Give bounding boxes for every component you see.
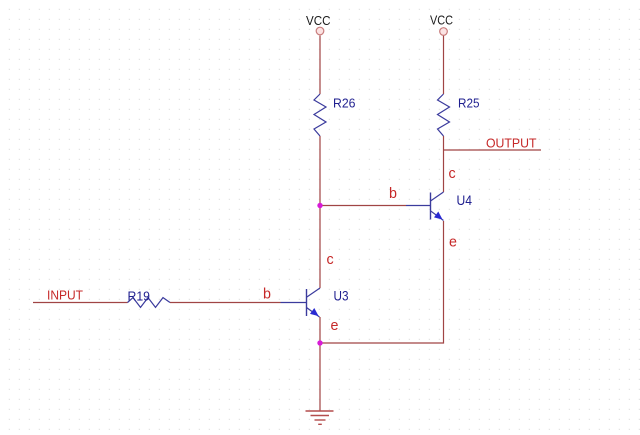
svg-text:c: c bbox=[449, 166, 456, 182]
svg-text:b: b bbox=[389, 186, 397, 202]
svg-text:OUTPUT: OUTPUT bbox=[486, 136, 537, 151]
svg-text:R19: R19 bbox=[128, 289, 151, 304]
svg-text:INPUT: INPUT bbox=[47, 288, 83, 303]
svg-text:R25: R25 bbox=[458, 96, 480, 111]
svg-text:c: c bbox=[327, 252, 334, 268]
svg-text:R26: R26 bbox=[333, 96, 356, 111]
svg-text:VCC: VCC bbox=[430, 13, 453, 28]
svg-text:U3: U3 bbox=[334, 288, 349, 304]
svg-text:e: e bbox=[449, 235, 457, 251]
svg-text:b: b bbox=[263, 287, 271, 303]
svg-text:U4: U4 bbox=[457, 192, 473, 208]
svg-text:VCC: VCC bbox=[306, 13, 331, 28]
svg-text:e: e bbox=[331, 318, 339, 334]
